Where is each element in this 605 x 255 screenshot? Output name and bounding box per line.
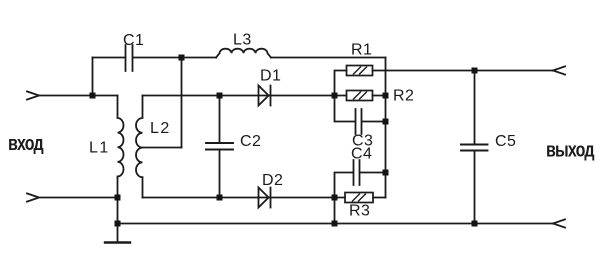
wire top bus left of C1 [93,57,126,59]
node R3 left [332,195,338,201]
wire L2 tap [143,147,182,149]
diode D1 [259,86,269,106]
input terminal top [27,91,39,99]
node R2 right [383,93,389,99]
svg-text:R3: R3 [349,203,370,220]
node C3 right [383,119,389,125]
wire L2 bottom row to R3 [143,197,346,199]
capacitor C2 plates [206,143,233,150]
svg-text:C1: C1 [123,32,144,49]
node C2 bottom [217,195,223,201]
resistor R1 [347,66,373,76]
svg-text:вход: вход [8,131,44,154]
inductor L1 [118,96,124,198]
svg-text:D2: D2 [262,172,283,189]
node C4 right [383,170,389,176]
wire R3 node down to ground row [334,198,336,224]
wire R2 right [373,95,386,97]
node ground left [115,221,121,227]
resistor R2 [347,91,373,101]
output terminal bottom [553,219,565,227]
wire input top to L1 [39,95,118,97]
capacitor C5 plates [461,145,488,151]
wire L2 top to D1 row [143,95,347,97]
wire input bottom [27,193,118,201]
svg-text:L2: L2 [150,120,171,137]
resistor R1 leads [335,71,554,96]
node input top junction [90,93,96,99]
diode D2 [259,188,269,208]
wire L1 bottom to ground row [117,198,119,243]
inductor L2 [136,96,143,198]
ground bar [105,241,130,243]
capacitor C3 leads [335,96,386,122]
capacitor C2 column [219,96,221,198]
wire R3 right [373,197,386,199]
capacitor C3 plates [356,109,362,134]
ground row wire [118,223,554,225]
svg-text:L1: L1 [89,140,110,157]
node L1 bottom [115,195,121,201]
wire top bus L3 to right corner [271,57,386,59]
capacitor C1 [126,45,133,71]
svg-text:C5: C5 [495,133,516,150]
svg-text:C2: C2 [240,133,261,150]
svg-text:L3: L3 [233,32,252,49]
capacitor C4 plates [354,160,360,185]
wire tap vertical to top bus node [181,58,183,148]
svg-text:C4: C4 [351,146,372,163]
node R2 left [332,93,338,99]
wire top bus C1 to L3 [133,57,216,59]
inductor L3 [216,49,271,58]
svg-text:выход: выход [546,137,595,160]
wire left vertical from top bus to input node [92,58,94,96]
node output top [472,68,478,74]
capacitor C4 leads [335,173,386,198]
svg-text:R2: R2 [393,88,414,105]
svg-text:R1: R1 [351,42,372,59]
resistor R3 [345,193,373,203]
output terminal top [553,66,565,74]
capacitor C5 column [474,71,476,224]
svg-text:D1: D1 [260,68,281,85]
node C2 top [217,93,223,99]
node top bus tap junction [179,55,185,61]
node ground mid [332,221,338,227]
wire right column x=385 [385,58,387,198]
node C5 bottom [472,221,478,227]
